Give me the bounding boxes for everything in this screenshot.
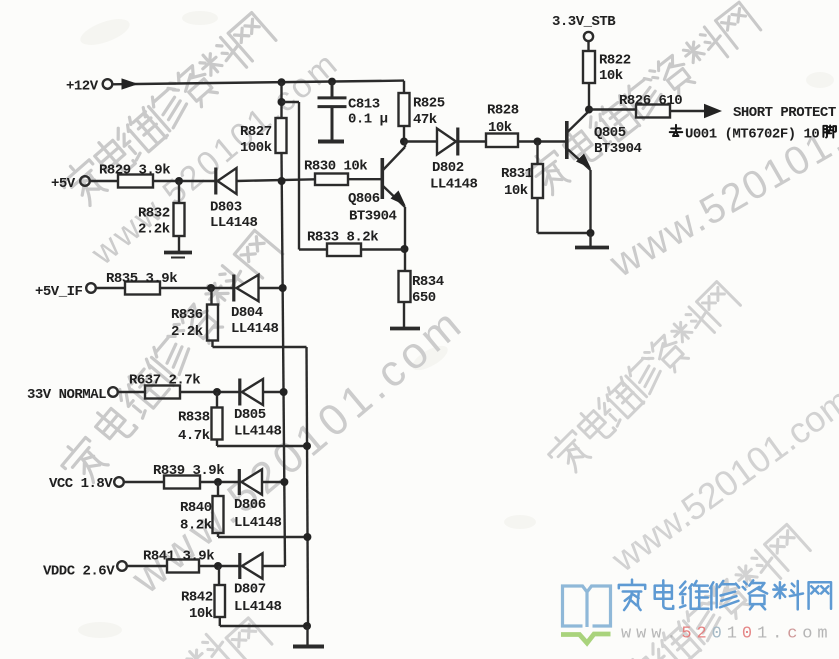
resistor R637	[145, 386, 180, 399]
svg-text:3.3V_STB: 3.3V_STB	[552, 14, 616, 30]
resistor R827	[276, 118, 287, 153]
ground (R832)	[164, 251, 192, 255]
node junction +12V / line A	[278, 78, 286, 86]
svg-text:R832: R832	[138, 206, 170, 222]
svg-text:10k: 10k	[488, 120, 512, 136]
wm line7 CJK top-right	[522, 0, 762, 199]
resistor R829	[118, 175, 153, 188]
resistor R831	[536, 142, 538, 234]
svg-text:2.2k: 2.2k	[171, 324, 203, 340]
node R822/R826/collector junction	[585, 106, 593, 114]
svg-text:U001 (MT6702F) 10: U001 (MT6702F) 10	[685, 127, 819, 143]
output arrow SHORT PROTECT	[704, 104, 722, 118]
svg-text:R830 10k: R830 10k	[304, 159, 367, 175]
wire +12V top rail	[113, 81, 405, 85]
node +12V terminal	[103, 79, 113, 89]
node junction A jog	[278, 98, 286, 106]
resistor R833	[327, 244, 361, 257]
svg-text:LL4148: LL4148	[234, 424, 282, 440]
logo swoosh	[561, 634, 611, 643]
svg-text:R637 2.7k: R637 2.7k	[129, 373, 200, 389]
svg-text:VDDC 2.6V: VDDC 2.6V	[43, 564, 115, 580]
node junction +12V / C813	[328, 78, 336, 86]
diode D806	[238, 469, 241, 495]
ground (R834)	[390, 327, 420, 331]
node R840 jog / line B junction	[303, 533, 311, 541]
wire R831 bottom jog	[538, 232, 591, 234]
node R831 top junction	[534, 138, 542, 146]
resistor R828	[486, 134, 518, 148]
svg-text:R828: R828	[487, 103, 519, 119]
transistor Q806	[380, 158, 384, 199]
svg-text:R834: R834	[412, 274, 444, 290]
wire D802 cathode to R828	[459, 140, 486, 142]
wire R840 bottom jog	[218, 536, 307, 538]
wire +5V_IF row	[96, 287, 283, 289]
svg-text:47k: 47k	[413, 112, 437, 128]
label 去U001 (MT6702F) 10脚	[670, 125, 836, 138]
svg-text:10k: 10k	[504, 183, 528, 199]
resistor R826	[636, 105, 670, 118]
wire 33V row	[117, 391, 284, 393]
wm line9 CJK bottom-left fragment	[182, 618, 272, 659]
node +5V / line A junction	[278, 177, 286, 185]
node VCC terminal	[114, 477, 124, 487]
wire jog to R833 feed	[282, 102, 328, 250]
svg-text:R831: R831	[501, 166, 533, 182]
svg-text:R825: R825	[413, 96, 445, 112]
svg-text:8.2k: 8.2k	[180, 518, 212, 534]
logo book icon	[563, 586, 611, 627]
diode D805	[238, 379, 241, 406]
svg-text:LL4148: LL4148	[210, 215, 258, 231]
svg-text:D805: D805	[234, 407, 266, 423]
svg-text:Q805: Q805	[594, 125, 626, 141]
svg-text:R835 3.9k: R835 3.9k	[106, 271, 177, 287]
resistor R830	[315, 174, 348, 186]
resistor R822	[587, 41, 590, 109]
svg-text:R840: R840	[180, 500, 212, 516]
node +5V_IF terminal	[86, 283, 96, 293]
resistor R839	[164, 476, 200, 489]
resistor R841	[167, 560, 199, 573]
wire R836 bottom jog to line B	[213, 346, 307, 348]
svg-text:+12V: +12V	[66, 79, 99, 95]
svg-text:VCC 1.8V: VCC 1.8V	[49, 476, 113, 492]
wm line8 CJK bottom-right under logo	[591, 522, 812, 659]
node VDDC terminal	[117, 561, 127, 571]
wire VCC row	[124, 481, 285, 483]
node R838 jog / line B junction	[303, 442, 311, 450]
node line B bottom junction	[303, 622, 311, 630]
svg-text:LL4148: LL4148	[430, 177, 478, 193]
transistor Q805	[565, 121, 569, 159]
wire line A main vertical	[282, 153, 286, 566]
svg-text:LL4148: LL4148	[234, 599, 282, 615]
svg-text:+5V_IF: +5V_IF	[35, 284, 83, 300]
svg-text:100k: 100k	[240, 140, 272, 156]
svg-text:R833 8.2k: R833 8.2k	[307, 230, 378, 246]
resistor R832	[178, 181, 180, 251]
resistor R842	[218, 566, 221, 626]
resistor R825	[403, 81, 405, 140]
wire R838 bottom jog	[217, 445, 307, 447]
svg-text:R822: R822	[599, 53, 631, 69]
diode D807	[238, 553, 241, 579]
svg-text:4.7k: 4.7k	[178, 428, 210, 444]
svg-text:2.2k: 2.2k	[138, 222, 170, 238]
LOGO bottom right	[561, 580, 833, 644]
wire to D802	[404, 140, 437, 142]
node R840 junction	[214, 478, 222, 486]
svg-text:C813: C813	[348, 97, 380, 113]
ground (Q805)	[589, 233, 591, 246]
wire line A upper segment	[280, 82, 282, 118]
svg-text:R826 610: R826 610	[619, 93, 682, 109]
node D805 / line A junction	[280, 388, 288, 396]
svg-text:R836: R836	[171, 307, 203, 323]
node Q805 emitter/ground junction	[587, 229, 595, 237]
svg-text:R839 3.9k: R839 3.9k	[153, 463, 224, 479]
svg-text:33V NORMAL: 33V NORMAL	[27, 387, 106, 403]
svg-text:www.520101.com: www.520101.com	[621, 625, 833, 644]
svg-text:D807: D807	[234, 582, 266, 598]
wire VDDC row	[127, 565, 285, 567]
diode D804	[232, 275, 235, 302]
svg-text:BT3904: BT3904	[594, 141, 642, 157]
resistor R840	[217, 482, 219, 537]
node Q806 collector junction	[400, 138, 408, 146]
svg-text:R838: R838	[178, 410, 210, 426]
wire R828 to Q805 base	[518, 140, 566, 142]
node 3.3V_STB terminal	[584, 32, 593, 41]
node R842 junction	[214, 562, 222, 570]
signal arrow on +12V wire	[122, 78, 139, 89]
wire R826 row	[589, 110, 705, 112]
logo title 家电维修资料网	[619, 580, 831, 610]
node R838 junction	[213, 388, 221, 396]
node R833/R834 junction	[401, 245, 409, 253]
svg-text:D806: D806	[234, 497, 266, 513]
svg-text:R841 3.9k: R841 3.9k	[143, 549, 214, 565]
svg-text:0.1 μ: 0.1 μ	[348, 112, 388, 128]
svg-text:10k: 10k	[599, 68, 623, 84]
svg-text:+5V: +5V	[51, 176, 76, 192]
ground (C813)	[318, 140, 344, 144]
svg-text:LL4148: LL4148	[231, 321, 279, 337]
wire +5V row	[90, 179, 381, 181]
node D806 / line A junction	[280, 478, 288, 486]
wm line1 CJK top-left	[57, 10, 278, 210]
capacitor C813	[318, 82, 347, 140]
svg-text:10k: 10k	[189, 606, 213, 622]
wire line B	[307, 347, 309, 626]
svg-text:D804: D804	[231, 305, 263, 321]
node R836 junction	[207, 284, 215, 292]
node 33V terminal	[108, 387, 118, 397]
wire R842 bottom jog	[220, 625, 308, 627]
svg-text:SHORT PROTECT: SHORT PROTECT	[733, 105, 836, 121]
diode D803	[214, 168, 217, 195]
wm line5b CJK right-center	[544, 279, 742, 477]
node +5V terminal	[80, 176, 90, 186]
resistor R838	[216, 392, 218, 446]
svg-text:D802: D802	[432, 160, 464, 176]
wm line3 CJK mid-left	[56, 228, 284, 488]
svg-text:R829 3.9k: R829 3.9k	[99, 163, 170, 179]
node R832 junction	[175, 177, 183, 185]
resistor R834	[399, 271, 411, 302]
svg-text:D803: D803	[210, 200, 242, 216]
svg-text:R827: R827	[240, 124, 272, 140]
svg-text:LL4148: LL4148	[234, 515, 282, 531]
resistor R836	[212, 288, 213, 347]
svg-text:R842: R842	[181, 590, 213, 606]
svg-text:650: 650	[412, 290, 436, 306]
ground (line B bottom)	[306, 626, 308, 645]
svg-text:Q806: Q806	[348, 191, 380, 207]
node D804 / line A junction	[279, 284, 287, 292]
resistor R835	[125, 282, 160, 295]
svg-text:BT3904: BT3904	[349, 209, 397, 225]
diode D802	[437, 129, 456, 155]
